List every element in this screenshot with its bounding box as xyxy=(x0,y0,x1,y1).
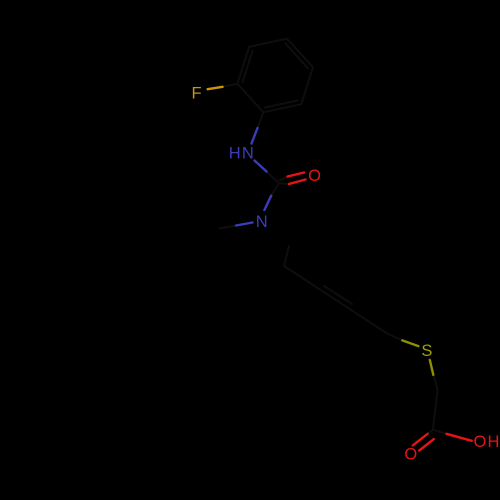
N-C(=O) bond (blue) xyxy=(264,196,271,210)
C=O double bond (red) xyxy=(288,173,305,177)
HN-C(=O) bond (blue) xyxy=(255,161,267,172)
svg-text:O: O xyxy=(308,167,321,185)
acid C-OH bond (red) xyxy=(447,434,472,441)
dark carbon bond segments xyxy=(219,84,446,434)
S-CH2 bond (yellow) xyxy=(430,360,434,375)
acid C=O double bond (red) xyxy=(413,434,428,446)
svg-text:S: S xyxy=(421,342,432,360)
N-CH3 bond (blue) xyxy=(236,223,253,226)
svg-text:OH: OH xyxy=(474,433,500,451)
top benzene ring carbon skeleton xyxy=(237,39,313,113)
svg-text:O: O xyxy=(404,446,417,464)
svg-text:HN: HN xyxy=(229,145,255,163)
svg-text:N: N xyxy=(256,213,268,231)
svg-text:F: F xyxy=(191,84,201,102)
S-ring bond (yellow) xyxy=(402,340,418,346)
F-C bond (gold) xyxy=(208,87,223,89)
HN-ring bond (blue) xyxy=(252,128,258,144)
